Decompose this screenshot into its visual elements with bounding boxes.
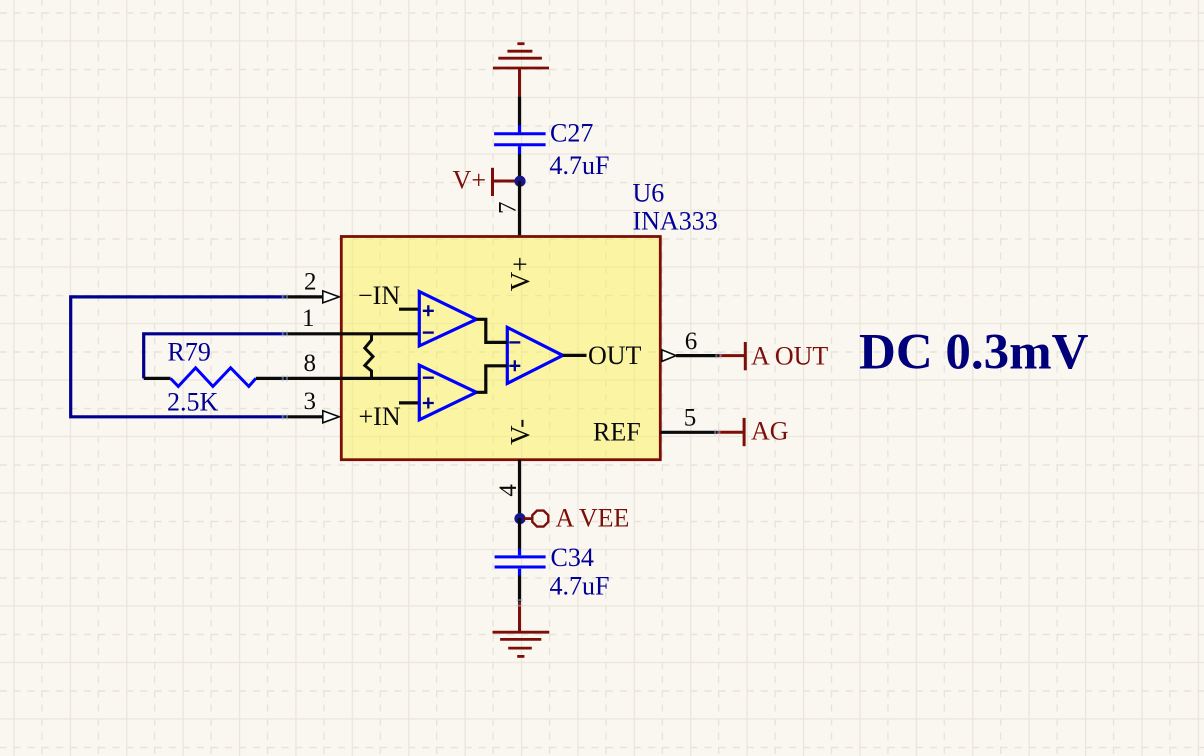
wire joint marks	[283, 294, 721, 436]
A2 - mark	[423, 377, 434, 379]
capacitor C34	[495, 549, 546, 576]
wire (navy) pin1 to R79 left	[144, 334, 285, 379]
svg-text:4.7uF: 4.7uF	[550, 151, 610, 180]
junction node pin4 / A VEE	[514, 513, 525, 524]
pin 5 (U6)	[660, 431, 717, 434]
svg-text:REF: REF	[593, 417, 641, 446]
capacitor C27	[494, 125, 545, 154]
svg-text:U6: U6	[633, 179, 665, 208]
pin 6 (U6)	[662, 350, 676, 362]
svg-text:INA333: INA333	[633, 207, 718, 236]
A3 + mark	[509, 360, 520, 371]
svg-text:5: 5	[684, 405, 697, 432]
wire A1 out to A3 minus	[476, 319, 507, 342]
wire (black) ground to C27	[518, 96, 521, 125]
svg-text:6: 6	[685, 328, 698, 355]
svg-text:2: 2	[304, 269, 317, 296]
svg-text:V-: V-	[505, 419, 535, 445]
svg-text:AG: AG	[751, 417, 789, 446]
svg-text:3: 3	[304, 388, 317, 415]
svg-text:C34: C34	[551, 543, 594, 572]
svg-text:A VEE: A VEE	[556, 504, 630, 533]
svg-text:+IN: +IN	[359, 402, 401, 431]
pin 8 (U6) + R79 right lead	[256, 377, 419, 380]
pin 1 (U6)	[285, 332, 420, 335]
svg-text:V+: V+	[453, 166, 486, 195]
op-amp U6 body	[341, 237, 660, 460]
op-amp A2 (lower triangle)	[419, 365, 476, 420]
svg-text:V+: V+	[505, 257, 535, 292]
svg-text:2.5K: 2.5K	[167, 388, 219, 417]
svg-text:4.7uF: 4.7uF	[550, 572, 610, 601]
A1 - mark	[423, 331, 434, 333]
svg-text:R79: R79	[168, 337, 211, 366]
svg-text:−IN: −IN	[358, 281, 400, 310]
wire (black) C27 to pin 7 junction	[518, 154, 521, 181]
A3 - mark	[509, 341, 520, 343]
op-amp A1 (upper triangle)	[419, 292, 476, 346]
junction node V+ / pin 7	[514, 176, 525, 187]
svg-text:4: 4	[495, 484, 522, 497]
wire (maroon) top ground to black wire	[518, 68, 521, 96]
power port A VEE (octagon)	[524, 517, 532, 520]
A1 + mark	[423, 305, 434, 316]
wire (black) junction to C34	[518, 518, 521, 549]
pin 4 (U6)	[518, 460, 521, 518]
svg-text:DC 0.3mV: DC 0.3mV	[859, 325, 1089, 381]
wire (navy) outer loop pin2 to pin3	[71, 297, 285, 417]
svg-text:A OUT: A OUT	[751, 342, 828, 371]
svg-text:8: 8	[304, 350, 317, 377]
port AG	[743, 418, 746, 446]
svg-text:1: 1	[302, 305, 315, 332]
wire (maroon) to bottom ground	[518, 602, 521, 631]
op-amp A3 (output triangle)	[507, 327, 563, 383]
svg-text:C27: C27	[550, 119, 593, 148]
wire stub +IN to A2+	[399, 401, 419, 404]
ground GND top (power ground, inverted)	[493, 44, 549, 68]
wire stub -IN to A1+	[399, 308, 419, 311]
port A OUT	[744, 342, 747, 370]
svg-text:7: 7	[495, 202, 522, 215]
pin 2 (U6)	[285, 295, 323, 298]
wire (black) C34 to maroon	[518, 576, 521, 603]
pin 3 (U6)	[285, 415, 323, 418]
wire (maroon) pin6 to A OUT port	[719, 354, 746, 357]
power port V+	[453, 166, 517, 197]
wire joint marks bottom	[516, 600, 523, 606]
pin 7 (U6)	[518, 181, 521, 237]
internal resistor (vertical zigzag)	[365, 334, 373, 379]
wire A3 out to OUT	[563, 354, 587, 357]
svg-text:OUT: OUT	[588, 341, 642, 370]
resistor R79	[144, 377, 171, 380]
wire (maroon) pin5 to AG port	[717, 431, 744, 434]
A2 + mark	[423, 398, 434, 409]
wire A2 out to A3 plus	[476, 366, 507, 393]
ground GND bottom (power ground)	[493, 632, 550, 656]
